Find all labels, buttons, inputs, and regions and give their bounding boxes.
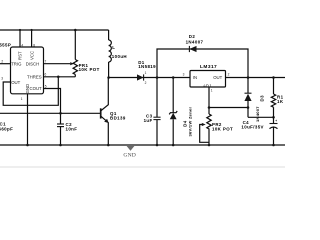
svg-text:DISCH: DISCH [26, 61, 39, 66]
page edge line [0, 166, 285, 168]
wire COUT pin 5 down to C2 [44, 89, 61, 125]
svg-text:C1: C1 [0, 121, 6, 126]
svg-text:1: 1 [145, 71, 147, 75]
svg-text:BD139: BD139 [110, 115, 126, 120]
svg-text:RST: RST [17, 51, 22, 60]
wire ADJ net to D3/R1 [209, 107, 248, 109]
wire OUT pin 3 loop to THRES node [3, 77, 58, 106]
node ADJ net at D3 lead [247, 106, 250, 109]
zener diode D4 36V/1W [169, 78, 192, 146]
node inductor/collector junction [107, 76, 110, 79]
svg-text:10K POT: 10K POT [79, 67, 100, 72]
svg-text:7: 7 [45, 60, 47, 64]
node GND on rail [26, 144, 29, 147]
svg-text:GND: GND [25, 84, 30, 94]
wire bottom GND rail [0, 144, 285, 146]
svg-text:36V/1W Zener: 36V/1W Zener [187, 107, 192, 137]
diode D3 1N4007 [244, 78, 264, 123]
svg-text:1N5819: 1N5819 [138, 64, 156, 69]
svg-text:10nF: 10nF [66, 126, 78, 131]
IC U1 555 timer box [11, 47, 44, 94]
svg-text:VCC: VCC [29, 51, 34, 60]
capacitor C4 10uF/35V electrolytic [241, 117, 277, 145]
svg-text:+: + [275, 119, 277, 123]
wire THRES pin 6 to PR1 bottom [44, 76, 76, 78]
node VCC stub [31, 29, 33, 31]
capacitor C2 10nF [57, 122, 77, 145]
svg-text:1N4007: 1N4007 [186, 40, 204, 45]
node C3 on rail [156, 144, 159, 147]
node C4 on rail [272, 144, 275, 147]
diode D1 1N5819 [137, 60, 156, 85]
node PR1 top on VCC rail [74, 29, 77, 32]
svg-text:5: 5 [45, 84, 47, 88]
svg-text:10K POT: 10K POT [212, 126, 233, 131]
svg-text:660pF: 660pF [0, 127, 13, 132]
svg-text:1: 1 [21, 97, 23, 101]
svg-text:1N4007: 1N4007 [255, 106, 260, 122]
svg-text:3: 3 [183, 72, 185, 76]
wire DISCH pin 7 to PR1 wiper [44, 63, 71, 65]
node link at R1 bottom [272, 116, 275, 119]
svg-text:THRES: THRES [27, 75, 42, 80]
potentiometer PR2 10K [200, 87, 233, 145]
wire mid rail left (inductor to LM317 IN) [109, 77, 190, 79]
node PR2 on rail [208, 144, 211, 147]
svg-text:6: 6 [45, 73, 47, 77]
svg-text:D3: D3 [260, 95, 265, 102]
wire output line to Q1 base [0, 112, 100, 114]
svg-text:OUT: OUT [213, 75, 222, 80]
svg-text:COUT: COUT [30, 86, 43, 91]
svg-text:D2: D2 [189, 34, 196, 39]
regulator U2 LM317 [183, 64, 230, 93]
svg-text:L: L [112, 45, 115, 50]
inductor L 100uH [109, 30, 127, 78]
svg-text:1K: 1K [277, 99, 284, 104]
node Q1 emitter on rail [107, 144, 110, 147]
potentiometer PR1 10K [70, 30, 100, 77]
node COUT line crossing [59, 112, 62, 115]
node RST stub [19, 29, 21, 31]
svg-text:555P: 555P [0, 43, 11, 48]
svg-text:8: 8 [33, 44, 35, 48]
svg-text:100uH: 100uH [112, 54, 127, 59]
transistor Q1 BD139 [101, 78, 126, 146]
svg-text:2: 2 [145, 81, 147, 85]
wire GND pin 1 down to rail [27, 94, 29, 145]
svg-text:LM317: LM317 [200, 64, 217, 70]
svg-text:1uF: 1uF [144, 118, 153, 123]
node D4 bottom on rail [172, 144, 175, 147]
node D4 top on mid rail [172, 76, 175, 79]
svg-text:4: 4 [21, 44, 23, 48]
node R1 top on mid rail [272, 76, 275, 79]
node D2 left on mid rail [156, 76, 159, 79]
svg-text:OUT: OUT [11, 80, 20, 85]
node D2 right on mid rail [247, 76, 250, 79]
ground symbol GND [123, 146, 136, 158]
wire mid rail right (LM317 OUT to edge) [226, 77, 286, 79]
capacitor C3 1uF [144, 78, 161, 146]
svg-text:1: 1 [211, 89, 213, 93]
svg-text:2: 2 [228, 72, 230, 76]
capacitor C1 (symbol off-page, labels only) [0, 121, 13, 131]
wire ADJ link D3 to R1/C4 [248, 116, 274, 118]
svg-text:2: 2 [1, 60, 3, 64]
wire top VCC rail [0, 29, 109, 31]
node C2 on rail [59, 144, 62, 147]
diode D2 1N4007 bypass over regulator [157, 34, 248, 78]
svg-text:3: 3 [1, 77, 3, 81]
node ADJ junction [208, 106, 211, 109]
pin 4 stub RST [19, 30, 21, 47]
pin 8 stub VCC [31, 30, 33, 47]
svg-text:TRIG: TRIG [11, 61, 22, 66]
svg-text:GND: GND [123, 152, 136, 158]
svg-text:10uF/35V: 10uF/35V [241, 125, 263, 130]
node OUT/THRES junction [57, 76, 60, 79]
svg-text:IN: IN [193, 75, 197, 80]
wire TRIG pin 2 [0, 63, 11, 65]
resistor R1 1K [271, 78, 284, 118]
